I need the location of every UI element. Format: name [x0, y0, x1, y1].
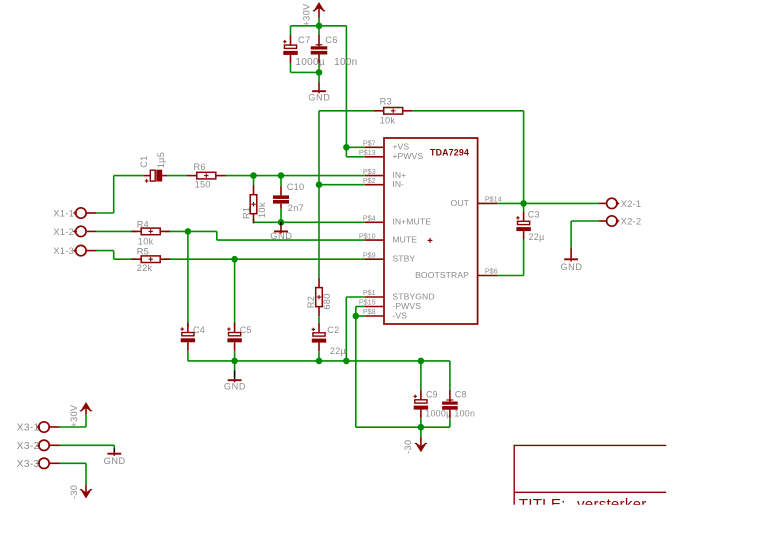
svg-text:22k: 22k — [137, 263, 153, 273]
svg-text:C6: C6 — [325, 34, 338, 45]
capacitor C2 22u — [312, 323, 346, 356]
svg-text:C9: C9 — [426, 390, 438, 400]
wire X1-2 to R4 — [97, 230, 137, 232]
svg-text:10k: 10k — [257, 202, 267, 218]
resistor R5 22k — [132, 247, 170, 273]
capacitor C10 2n7 — [273, 182, 304, 213]
svg-text:P$8: P$8 — [363, 307, 376, 316]
svg-text:X3-3: X3-3 — [17, 459, 40, 470]
svg-text:P$10: P$10 — [359, 231, 376, 240]
svg-text:OUT: OUT — [451, 198, 470, 208]
svg-text:IN-: IN- — [392, 179, 404, 189]
svg-text:STBYGND: STBYGND — [392, 291, 434, 301]
wire C8 bottom — [449, 419, 451, 428]
node C7/C6 gnd — [316, 69, 323, 76]
connector X3-3 — [17, 458, 60, 470]
capacitor C7 1000u — [283, 34, 325, 68]
title block frame and TITLE versterker — [514, 445, 667, 513]
node -VS pin — [353, 313, 360, 320]
ground below bus — [224, 371, 246, 392]
svg-text:-VS: -VS — [392, 310, 407, 320]
wire to P$13 — [346, 147, 364, 157]
svg-text:TDA7294: TDA7294 — [430, 147, 469, 157]
ground near C6 — [308, 82, 330, 102]
svg-text:MUTE: MUTE — [392, 235, 417, 245]
wire GND bus — [188, 360, 450, 362]
connector X3-1 — [17, 422, 60, 434]
svg-text:1µ5: 1µ5 — [156, 152, 166, 168]
resistor R4 10k — [132, 220, 170, 247]
svg-text:150: 150 — [195, 180, 211, 190]
node gnd bus C5 — [231, 358, 238, 365]
wire C10 top — [280, 176, 282, 187]
connector X1-2 — [53, 226, 96, 237]
svg-text:100n: 100n — [454, 409, 475, 419]
node R4/C4 — [185, 228, 192, 235]
capacitor C9 1000u — [414, 390, 452, 419]
capacitor C6 100n — [311, 34, 358, 68]
wire C8 top — [449, 361, 451, 390]
svg-text:STBY: STBY — [392, 254, 415, 264]
resistor R1 10k — [241, 185, 266, 223]
wire R6 to IN+ — [225, 175, 365, 177]
op-amp U1 TDA7294 — [359, 138, 502, 324]
svg-text:P$14: P$14 — [485, 195, 502, 204]
svg-text:C10: C10 — [287, 182, 305, 192]
svg-text:IN+MUTE: IN+MUTE — [392, 217, 431, 227]
wire R4 to MUTE — [165, 231, 365, 240]
wire C9 top — [420, 361, 422, 390]
svg-text:C4: C4 — [193, 325, 205, 335]
node IN- feedback — [316, 181, 323, 188]
svg-text:BOOTSTRAP: BOOTSTRAP — [415, 270, 469, 280]
wire to P$7 — [346, 146, 364, 148]
svg-text:-30: -30 — [69, 485, 79, 499]
wire X1-3 to R5 — [97, 251, 137, 260]
wire C7 top — [290, 26, 292, 36]
svg-text:P$7: P$7 — [363, 139, 376, 148]
resistor R6 150 — [187, 162, 225, 190]
svg-text:680: 680 — [322, 293, 332, 309]
svg-text:X1-2: X1-2 — [53, 227, 74, 237]
svg-text:C8: C8 — [455, 390, 467, 400]
svg-text:22µ: 22µ — [330, 346, 346, 356]
svg-text:GND: GND — [308, 93, 330, 103]
svg-text:+30V: +30V — [302, 3, 312, 26]
resistor R2 680 — [306, 278, 332, 316]
connector X2-1 — [599, 198, 641, 209]
svg-text:X3-1: X3-1 — [17, 423, 40, 434]
wire -30 stub — [420, 427, 422, 437]
connector X1-3 — [53, 245, 96, 256]
svg-text:100n: 100n — [334, 57, 357, 68]
wire C3 top — [523, 203, 525, 211]
svg-text:P$1: P$1 — [363, 288, 376, 297]
wire R5 to STBY — [165, 258, 365, 260]
wire P$1 to GND bus — [346, 297, 364, 361]
supply +30V — [302, 3, 326, 27]
wire R3 right to OUT node — [412, 111, 523, 204]
wire C3 bottom to BOOTSTRAP — [497, 240, 523, 276]
wire +VS drop — [345, 26, 347, 148]
svg-text:X1-1: X1-1 — [53, 208, 74, 218]
wire OUT to X2-1 — [497, 202, 599, 204]
supply +30V at X3 — [69, 403, 92, 428]
node +VS pin — [343, 144, 350, 151]
resistor R3 10k — [374, 96, 412, 125]
wire C4 bottom — [187, 351, 189, 361]
wire R4 node down to C4 — [187, 231, 189, 327]
svg-text:10k: 10k — [138, 236, 154, 246]
svg-text:2n7: 2n7 — [288, 203, 304, 213]
wire X3-3 to -30 — [60, 463, 87, 485]
svg-text:-PWVS: -PWVS — [392, 301, 421, 311]
wire C1 to R6 — [167, 175, 187, 177]
wire R2 to C2 — [318, 316, 320, 323]
wire IN- to pin — [319, 184, 365, 186]
svg-text:X1-3: X1-3 — [53, 246, 74, 256]
wire feedback vertical — [318, 111, 320, 278]
capacitor C3 22u — [516, 210, 544, 243]
capacitor C8 100n — [442, 390, 475, 419]
wire +30V rail — [291, 25, 347, 27]
svg-text:P$15: P$15 — [359, 298, 376, 307]
svg-text:-30: -30 — [403, 440, 413, 454]
svg-text:R3: R3 — [380, 96, 392, 106]
svg-text:P$4: P$4 — [363, 214, 376, 223]
ground near X2-2 — [560, 247, 582, 272]
node OUT — [520, 200, 527, 207]
wire -VS net — [356, 316, 450, 427]
node C10 top — [278, 172, 285, 179]
svg-text:C3: C3 — [528, 210, 540, 220]
svg-text:22µ: 22µ — [529, 232, 545, 242]
svg-text:+PWVS: +PWVS — [392, 151, 423, 161]
svg-text:X2-2: X2-2 — [621, 216, 642, 226]
connector X2-2 — [599, 216, 641, 227]
node gnd bus C9 — [418, 358, 425, 365]
node +30V rail — [316, 23, 323, 30]
wire GND bus stub — [234, 361, 236, 371]
wire X1-1 to C1 — [97, 176, 144, 213]
supply -30 — [403, 437, 427, 454]
svg-text:P$13: P$13 — [359, 148, 376, 157]
svg-text:C7: C7 — [298, 34, 311, 45]
node -VS bus C9 — [418, 424, 425, 431]
wire X3-2 to GND — [60, 445, 115, 448]
svg-text:1000µ: 1000µ — [295, 57, 325, 68]
node R5/C5 — [231, 256, 238, 263]
svg-text:C5: C5 — [240, 325, 252, 335]
node gnd bus C2 — [316, 358, 323, 365]
svg-text:R5: R5 — [137, 247, 149, 257]
svg-text:R4: R4 — [137, 220, 149, 230]
svg-text:P$9: P$9 — [363, 250, 376, 259]
capacitor C4 — [181, 323, 206, 351]
supply +30V arrow — [0, 0, 1, 1]
capacitor C1 1u5 — [139, 152, 167, 183]
svg-text:GND: GND — [224, 382, 246, 392]
wire X3-1 to +30V — [60, 414, 87, 427]
wire R5 node down to C5 — [234, 259, 236, 327]
wire R3 left — [319, 110, 374, 112]
svg-text:C2: C2 — [327, 325, 339, 335]
wire X2-2 to GND — [571, 221, 599, 247]
wire IN+MUTE — [254, 221, 365, 223]
svg-text:P$6: P$6 — [485, 267, 498, 276]
svg-text:+30V: +30V — [69, 404, 79, 427]
wire C10 bottom — [280, 209, 282, 223]
ground near C10 — [270, 222, 292, 241]
capacitor C5 — [227, 323, 252, 351]
svg-text:GND: GND — [104, 456, 126, 466]
svg-text:C1: C1 — [139, 155, 149, 167]
svg-text:P$2: P$2 — [363, 176, 376, 185]
svg-text:P$3: P$3 — [363, 167, 376, 176]
connector X1-1 — [53, 208, 96, 219]
ground near X3-2 — [104, 448, 126, 466]
svg-text:1000µ: 1000µ — [425, 409, 451, 419]
svg-text:X3-2: X3-2 — [17, 441, 40, 452]
node gnd bus stbygnd — [343, 358, 350, 365]
svg-text:R1: R1 — [241, 207, 251, 219]
wire C6 bottom — [318, 63, 320, 82]
wire P$15 down — [356, 307, 365, 317]
wire R1 top lead — [253, 176, 255, 185]
connector X3-2 — [17, 440, 60, 452]
svg-text:R6: R6 — [194, 162, 206, 172]
supply -30 at X3 — [69, 485, 92, 499]
wire C6 top — [318, 26, 320, 35]
svg-text:+VS: +VS — [392, 142, 409, 152]
wire +30V arrow stub — [318, 17, 320, 25]
svg-text:GND: GND — [270, 231, 292, 241]
svg-text:GND: GND — [560, 262, 582, 272]
node C10 gnd — [278, 219, 285, 226]
svg-text:X2-1: X2-1 — [621, 199, 642, 209]
node R1/R6 — [250, 172, 257, 179]
wire C2 bottom — [318, 351, 320, 361]
wire R1 bottom — [253, 219, 255, 223]
wire C9 bottom — [420, 418, 422, 427]
wire C5 bottom — [234, 351, 236, 361]
svg-text:R2: R2 — [306, 296, 316, 308]
wire C7 bottom — [291, 64, 320, 73]
svg-text:10k: 10k — [380, 115, 396, 125]
